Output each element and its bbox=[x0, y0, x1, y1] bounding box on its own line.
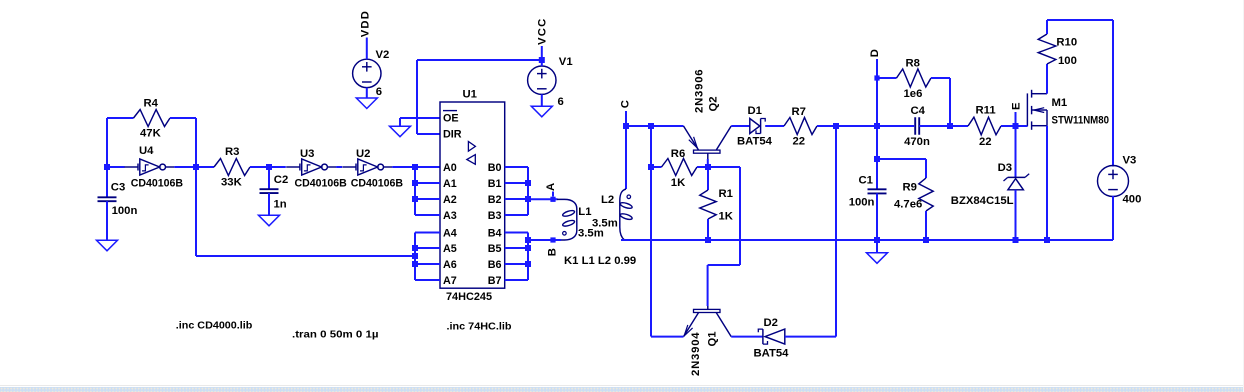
node main row junction bbox=[874, 123, 880, 129]
node B1 junction bbox=[525, 180, 531, 186]
svg-text:A1: A1 bbox=[443, 178, 457, 190]
wire R11 to E node bbox=[1001, 125, 1027, 127]
resistor R6 bbox=[662, 159, 698, 176]
svg-text:R1: R1 bbox=[719, 188, 733, 200]
svg-text:470n: 470n bbox=[904, 136, 930, 148]
node E junction bbox=[1013, 123, 1019, 129]
node B5 junction bbox=[525, 245, 531, 251]
wire V3 bottom bbox=[1112, 196, 1114, 240]
svg-text:R11: R11 bbox=[976, 105, 996, 117]
svg-text:OE: OE bbox=[443, 113, 459, 125]
wire R3 left lead bbox=[196, 166, 214, 168]
svg-text:R4: R4 bbox=[144, 98, 159, 110]
svg-text:B5: B5 bbox=[488, 243, 502, 255]
ground under V1 bbox=[531, 106, 552, 117]
IC U1 74HC245 box bbox=[440, 102, 505, 288]
wire C3/U4 input node vertical from R4 bbox=[106, 118, 108, 167]
svg-text:A5: A5 bbox=[443, 243, 457, 255]
ground under C2 bbox=[259, 215, 280, 226]
resistor R11 bbox=[968, 117, 1001, 135]
svg-text:B7: B7 bbox=[488, 275, 502, 287]
node C junction bbox=[623, 123, 629, 129]
svg-text:B1: B1 bbox=[488, 178, 502, 190]
svg-text:R6: R6 bbox=[671, 148, 685, 160]
svg-text:100n: 100n bbox=[112, 205, 138, 217]
wire A-side lower bus vertical bbox=[414, 233, 416, 281]
wire A bus stub y199 bbox=[415, 198, 440, 200]
wire R10 top lead bbox=[1046, 20, 1048, 34]
svg-text:U4: U4 bbox=[139, 145, 154, 157]
svg-text:B2: B2 bbox=[488, 194, 502, 206]
svg-text:100: 100 bbox=[1058, 55, 1077, 67]
wire A-side upper bus vertical bbox=[414, 167, 416, 215]
wire top rail bbox=[1047, 19, 1113, 21]
svg-text:A: A bbox=[545, 183, 557, 191]
wire DIR pin bbox=[417, 133, 440, 135]
svg-text:CD40106B: CD40106B bbox=[351, 177, 403, 189]
capacitor C2 bbox=[268, 167, 270, 189]
wire R7 to node D bbox=[817, 125, 877, 127]
wire V1 to ground bbox=[541, 94, 543, 106]
wire Q1 emitter row bbox=[651, 336, 684, 338]
wire V3 top vertical bbox=[1112, 20, 1114, 167]
wire bypass horizontal y265 bbox=[708, 264, 740, 266]
wire DIR column vertical bbox=[416, 60, 418, 134]
node M1 source junction bbox=[1044, 237, 1050, 243]
diode D2 BAT54 bbox=[765, 329, 785, 344]
inductor L1 phase dot bbox=[563, 232, 567, 236]
node C3 junction bbox=[104, 164, 110, 170]
inductor L2 phase dot bbox=[627, 195, 631, 199]
resistor R8 bbox=[897, 69, 932, 87]
wire feedback U4out down bbox=[195, 167, 197, 256]
svg-text:6: 6 bbox=[558, 96, 564, 108]
svg-text:D: D bbox=[869, 49, 881, 57]
wire to ground under C1 bbox=[876, 240, 878, 253]
svg-text:47K: 47K bbox=[140, 128, 162, 140]
svg-text:B6: B6 bbox=[488, 259, 502, 271]
wire column 836 vertical bbox=[835, 126, 837, 337]
svg-text:D2: D2 bbox=[764, 317, 778, 329]
wire B-side upper bus vertical bbox=[527, 167, 529, 215]
transistor Q1 2N3904 bbox=[694, 309, 721, 312]
svg-text:74HC245: 74HC245 bbox=[446, 291, 492, 303]
wire main row D node to C4 bbox=[877, 125, 914, 127]
inductor L2 bbox=[620, 189, 626, 240]
wire bottom rail bbox=[621, 239, 1113, 241]
wire VCC rail to DIR column bbox=[417, 59, 542, 61]
wire D1 to R7 bbox=[765, 125, 784, 127]
transistor Q2 2N3906 bbox=[694, 150, 721, 153]
svg-text:.inc 74HC.lib: .inc 74HC.lib bbox=[447, 320, 512, 332]
wire bypass vertical x740 bbox=[739, 167, 741, 265]
wire feedback bottom horizontal to A4-A7 bus bbox=[196, 255, 415, 257]
resistor R7 bbox=[784, 118, 817, 135]
resistor R9 bbox=[919, 178, 933, 211]
svg-text:Q1: Q1 bbox=[707, 331, 719, 346]
wire B-side lower bus vertical bbox=[527, 233, 529, 281]
svg-text:C4: C4 bbox=[911, 105, 926, 117]
svg-text:VCC: VCC bbox=[537, 18, 549, 45]
wire net A to L1 top bbox=[528, 198, 558, 200]
svg-text:22: 22 bbox=[979, 136, 992, 148]
svg-text:22: 22 bbox=[793, 136, 806, 148]
wire column D upper bbox=[876, 78, 878, 189]
ground under C3 bbox=[97, 240, 118, 251]
voltage source V3 bbox=[1098, 166, 1129, 197]
svg-text:1K: 1K bbox=[719, 211, 734, 223]
svg-text:R10: R10 bbox=[1056, 36, 1077, 48]
status bar strip bbox=[0, 385, 1244, 387]
svg-text:B0: B0 bbox=[488, 162, 502, 174]
resistor R10 bbox=[1038, 34, 1056, 64]
wire node to U4 input bbox=[107, 166, 125, 168]
wire D2 to column 836 bbox=[785, 336, 836, 338]
wire R4 right horizontal bbox=[170, 117, 196, 119]
node C1 ground junction bbox=[874, 237, 880, 243]
wire VDD label to V2 bbox=[366, 38, 368, 60]
svg-text:B: B bbox=[547, 248, 559, 256]
svg-text:A2: A2 bbox=[443, 194, 457, 206]
zener diode D3 BZX84C15L bbox=[1008, 176, 1025, 178]
node A1 junction bbox=[412, 180, 418, 186]
wire A bus stub y248 bbox=[415, 247, 440, 249]
svg-text:CD40106B: CD40106B bbox=[295, 177, 347, 189]
net A label anchor bbox=[550, 197, 555, 202]
wire VCC stub bbox=[541, 46, 543, 66]
svg-text:V3: V3 bbox=[1123, 155, 1137, 167]
wire R8 right lead bbox=[931, 77, 950, 79]
svg-text:R3: R3 bbox=[225, 146, 239, 158]
svg-text:.tran 0 50m 0 1µ: .tran 0 50m 0 1µ bbox=[292, 328, 379, 340]
wire M1 drain up to R10 bbox=[1046, 64, 1048, 94]
svg-text:K1 L1 L2 0.99: K1 L1 L2 0.99 bbox=[564, 255, 636, 267]
svg-text:DIR: DIR bbox=[443, 129, 462, 141]
wire Q2 base bypass right bbox=[708, 166, 740, 168]
wire B bus stub y264 bbox=[505, 263, 528, 265]
svg-text:2N3904: 2N3904 bbox=[690, 332, 702, 376]
node B2 junction bbox=[525, 196, 531, 202]
wire net C stub bbox=[625, 111, 627, 126]
wire B bus stub y167 bbox=[505, 166, 528, 168]
mosfet M1 STW11NM80 bbox=[1026, 93, 1028, 126]
net B label anchor bbox=[550, 237, 555, 242]
node U4out junction bbox=[193, 164, 199, 170]
wire A bus stub y264 bbox=[415, 263, 440, 265]
wire V2 to ground bbox=[366, 88, 368, 98]
wire R6 right lead bbox=[697, 166, 708, 168]
svg-text:1K: 1K bbox=[671, 177, 686, 189]
node A0 junction bbox=[412, 164, 418, 170]
wire M1 source down bbox=[1046, 126, 1048, 240]
svg-text:A3: A3 bbox=[443, 210, 457, 222]
voltage source V1 bbox=[528, 66, 556, 94]
svg-text:1n: 1n bbox=[274, 199, 287, 211]
svg-text:.inc CD4000.lib: .inc CD4000.lib bbox=[176, 320, 253, 332]
node A2 junction bbox=[412, 196, 418, 202]
svg-text:L2: L2 bbox=[601, 194, 614, 206]
wire R8 left lead bbox=[877, 77, 897, 79]
wire Q2 collector to D1 bbox=[731, 125, 750, 127]
svg-text:C1: C1 bbox=[859, 175, 873, 187]
wire A bus stub y183 bbox=[415, 182, 440, 184]
svg-text:U2: U2 bbox=[356, 148, 370, 160]
svg-text:B3: B3 bbox=[488, 210, 502, 222]
wire B bus stub y232.5 bbox=[505, 232, 528, 234]
node A6 junction bbox=[412, 261, 418, 267]
capacitor C4 bbox=[914, 117, 916, 135]
node R7/D2 junction bbox=[833, 123, 839, 129]
node B-net tee junction bbox=[525, 237, 531, 243]
wire net D stub bbox=[876, 59, 878, 78]
wire OE ground stub bbox=[399, 118, 401, 126]
svg-text:U1: U1 bbox=[463, 89, 477, 101]
wire R9 branch horizontal bbox=[877, 158, 926, 160]
wire R3 right lead bbox=[250, 166, 269, 168]
node R9 tee junction bbox=[874, 156, 880, 162]
wire L2 top vertical bbox=[625, 126, 627, 189]
node C2 junction bbox=[266, 164, 272, 170]
svg-text:C3: C3 bbox=[111, 182, 125, 194]
svg-text:A7: A7 bbox=[443, 275, 457, 287]
svg-text:4.7e6: 4.7e6 bbox=[894, 199, 922, 211]
net D anchor bbox=[874, 75, 879, 80]
node R1 bottom junction bbox=[705, 237, 711, 243]
wire Q2 base to node bbox=[707, 159, 709, 167]
inverter U4 CD40106B bbox=[124, 166, 138, 168]
diode D1 BAT54 bbox=[750, 119, 760, 134]
wire net B to L1 bottom bbox=[528, 239, 561, 241]
node A5 junction bbox=[412, 245, 418, 251]
svg-text:A4: A4 bbox=[443, 228, 457, 240]
wire U2 output to A0 pin of U1 bbox=[392, 166, 440, 168]
svg-text:B4: B4 bbox=[488, 228, 502, 240]
ground under V2 bbox=[356, 98, 377, 109]
wire B bus stub y248 bbox=[505, 247, 528, 249]
direction arrow left bbox=[467, 155, 476, 165]
wire U3 output to U2 input bbox=[336, 166, 342, 168]
svg-text:BZX84C15L: BZX84C15L bbox=[951, 195, 1014, 207]
wire B bus stub y183 bbox=[505, 182, 528, 184]
svg-text:U3: U3 bbox=[300, 148, 314, 160]
wire column 651 vertical bbox=[650, 126, 652, 337]
wire A bus stub y215 bbox=[415, 214, 440, 216]
svg-text:L1: L1 bbox=[578, 206, 591, 218]
svg-text:VDD: VDD bbox=[359, 10, 371, 37]
direction arrow right bbox=[468, 142, 475, 152]
wire Q1 collector to D2 bbox=[731, 336, 762, 338]
capacitor C3 bbox=[106, 167, 108, 197]
wire R9 bottom lead bbox=[925, 211, 927, 240]
svg-text:C2: C2 bbox=[274, 174, 288, 186]
resistor R1 bbox=[707, 167, 709, 190]
wire A bus stub y232.5 bbox=[415, 232, 440, 234]
wire C2 node to U3 input bbox=[269, 166, 286, 168]
wire B bus stub y215 bbox=[505, 214, 528, 216]
node Q2 base junction bbox=[705, 164, 711, 170]
node B6 junction bbox=[525, 261, 531, 267]
wire OE pin to ground bbox=[400, 117, 440, 119]
svg-text:STW11NM80: STW11NM80 bbox=[1052, 115, 1110, 127]
svg-text:400: 400 bbox=[1123, 194, 1142, 206]
inverter U3 CD40106B bbox=[286, 166, 300, 168]
wire bypass down to Q1 base bbox=[707, 265, 709, 306]
svg-text:CD40106B: CD40106B bbox=[131, 177, 183, 189]
ground at OE pin bbox=[390, 126, 411, 137]
wire A bus stub y280 bbox=[415, 279, 440, 281]
svg-text:E: E bbox=[1010, 102, 1022, 110]
svg-text:Q2: Q2 bbox=[708, 96, 720, 111]
resistor R3 bbox=[214, 159, 250, 176]
wire R8 down to main row bbox=[949, 78, 951, 126]
svg-text:R8: R8 bbox=[906, 58, 920, 70]
svg-text:R9: R9 bbox=[903, 182, 917, 194]
svg-text:D1: D1 bbox=[748, 105, 762, 117]
svg-text:3.5m: 3.5m bbox=[578, 228, 604, 240]
wire R4 top left horizontal bbox=[107, 117, 134, 119]
ground under C1 bbox=[867, 253, 888, 263]
node V1 top junction bbox=[539, 57, 545, 63]
svg-text:V2: V2 bbox=[376, 49, 390, 61]
svg-text:D3: D3 bbox=[998, 162, 1012, 174]
svg-text:BAT54: BAT54 bbox=[754, 348, 790, 360]
svg-text:6: 6 bbox=[376, 86, 382, 98]
wire U4 output to node bbox=[174, 166, 196, 168]
node D3 bottom junction bbox=[1013, 237, 1019, 243]
node R6 left junction bbox=[648, 164, 654, 170]
svg-text:100n: 100n bbox=[849, 197, 875, 209]
svg-text:V1: V1 bbox=[559, 56, 573, 68]
node C4/R11 junction bbox=[947, 123, 953, 129]
svg-text:2N3906: 2N3906 bbox=[694, 69, 706, 113]
wire main row C to Q2 emitter bbox=[626, 125, 684, 127]
svg-text:C: C bbox=[619, 100, 631, 108]
svg-text:A0: A0 bbox=[443, 162, 457, 174]
node R9 bottom junction bbox=[923, 237, 929, 243]
voltage source V2 bbox=[353, 59, 381, 87]
wire R9 top lead bbox=[925, 159, 927, 178]
wire R6 left lead bbox=[651, 166, 662, 168]
wire D3 top lead bbox=[1015, 126, 1017, 177]
node column651 junction bbox=[648, 123, 654, 129]
svg-text:1e6: 1e6 bbox=[904, 88, 923, 100]
wire D3 bottom lead bbox=[1015, 190, 1017, 240]
svg-text:33K: 33K bbox=[221, 177, 243, 189]
wire B bus stub y199 bbox=[505, 198, 528, 200]
resistor R4 bbox=[134, 110, 171, 127]
inductor L1 bbox=[557, 199, 577, 240]
svg-text:A6: A6 bbox=[443, 259, 457, 271]
wire B bus stub y280 bbox=[505, 279, 528, 281]
wire R4 right vertical to U4 output node bbox=[195, 118, 197, 167]
inverter U2 CD40106B bbox=[342, 166, 356, 168]
wire M1 gate lead bbox=[1016, 125, 1028, 127]
node A-bus feed junction bbox=[412, 253, 418, 259]
capacitor C1 bbox=[868, 188, 887, 190]
svg-text:M1: M1 bbox=[1052, 97, 1068, 109]
wire net E stub bbox=[1015, 112, 1017, 126]
wire C4 to R11 node bbox=[919, 125, 968, 127]
svg-text:R7: R7 bbox=[792, 106, 806, 118]
svg-text:BAT54: BAT54 bbox=[737, 136, 773, 148]
